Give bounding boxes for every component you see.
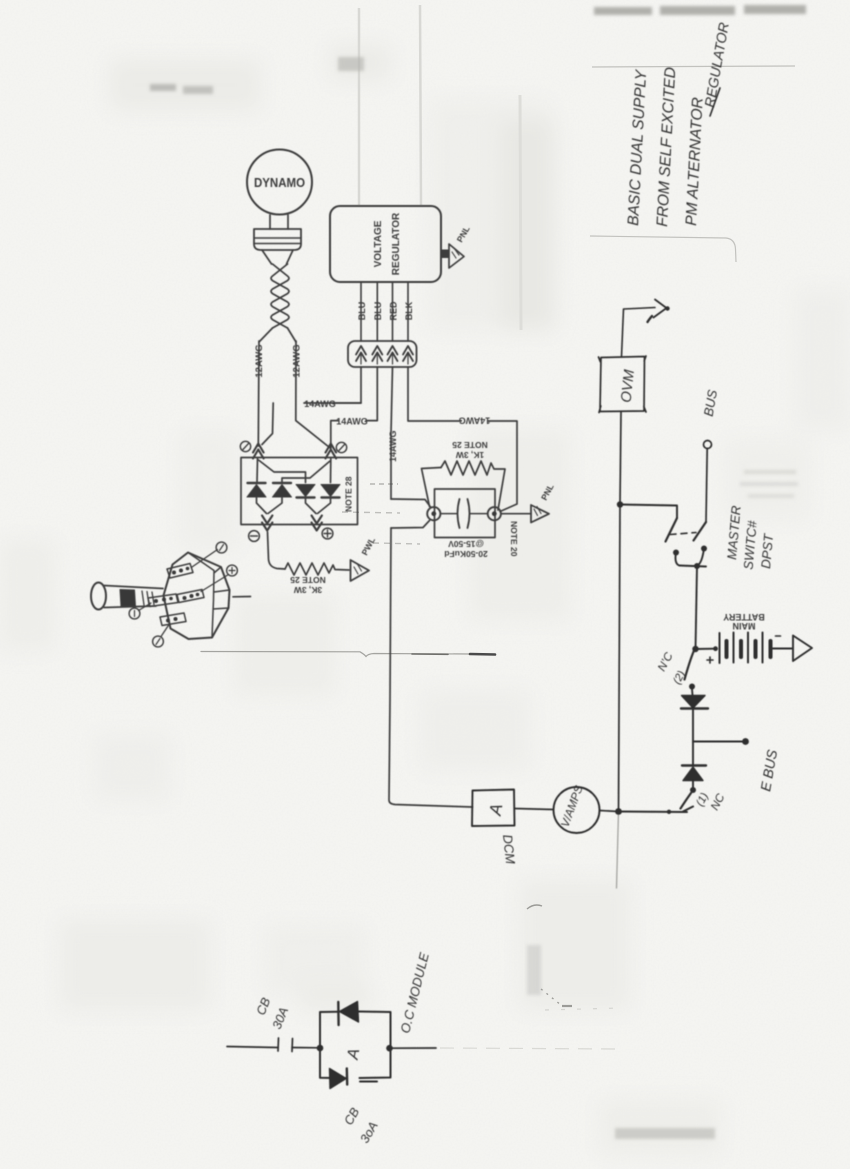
resistor R2 3K 3W: [285, 563, 349, 575]
NC2 contact: [689, 684, 695, 690]
plus terminal circle: [322, 528, 333, 539]
svg-text:12AWG: 12AWG: [254, 344, 265, 377]
dynamo shaft neck: [270, 215, 288, 229]
wire junction to master switch pole 1: [620, 505, 677, 519]
DC output chevron minus: [262, 516, 272, 531]
diode D2: [273, 482, 291, 484]
switch output bus: [680, 566, 707, 567]
title slash: [710, 88, 720, 116]
bridge internal wiring: [256, 459, 259, 483]
wire 12AWG left: [257, 341, 260, 446]
capacitor C1 box: [435, 489, 496, 538]
wire battery to ground: [772, 648, 792, 650]
svg-text:14AWG: 14AWG: [459, 416, 491, 426]
svg-text:BLU: BLU: [357, 302, 367, 321]
terminal tab middle: [148, 594, 178, 607]
battery BT1 MAIN BATTERY: [720, 633, 771, 664]
bridge bottom wiring: [257, 498, 283, 514]
terminal tab mid-right: [177, 590, 204, 603]
regulator output wires: [361, 282, 408, 341]
bridge rectifier box: [241, 458, 358, 525]
AC input arrow right: [326, 444, 337, 459]
crowbar diode bottom: [330, 1069, 347, 1089]
wire DCM to meter: [515, 809, 554, 810]
terminal tab top: [167, 564, 193, 579]
leader lines and pin label circles: [192, 550, 218, 568]
PNL arrow at regulator: [441, 250, 450, 259]
svg-text:BLK: BLK: [404, 301, 414, 320]
CB feeder wire left: [227, 1047, 277, 1048]
switch NC2 blade: [685, 651, 695, 680]
switch S1 blade: [666, 518, 678, 542]
circuit breaker CB 30A ticks: [278, 1038, 293, 1052]
svg-text:NOTE 25: NOTE 25: [452, 440, 488, 450]
node left of module: [317, 1045, 324, 1052]
PNL lamp triangle 2: [531, 505, 549, 523]
diode D1: [248, 482, 266, 484]
node battery junction: [692, 646, 698, 652]
wire loop from sense wire to cap terminal: [391, 499, 431, 507]
wire switch to battery node: [696, 566, 698, 649]
diode D6: [682, 696, 706, 709]
svg-text:MAIN: MAIN: [733, 621, 756, 631]
wire junction down to meter tap: [619, 505, 621, 812]
wire split to 12AWG pair: [259, 328, 296, 342]
switch NC1 blade: [681, 793, 692, 809]
faint ruled line top right: [592, 66, 795, 67]
gang link dashed: [670, 533, 696, 535]
capacitor terminal left: [427, 507, 440, 520]
wire E bus to diode D5: [692, 742, 694, 766]
smudged text top right: [150, 5, 806, 1139]
dynamo G1: [247, 150, 312, 215]
wire to E bus node: [692, 709, 694, 742]
AC input arrow left: [253, 444, 264, 459]
DC output chevron plus: [312, 516, 322, 531]
terminal tab bottom: [160, 613, 186, 626]
BUS feed terminal: [704, 441, 712, 449]
switch S1 contact: [673, 550, 679, 556]
svg-text:1K, 3W: 1K, 3W: [455, 450, 484, 460]
svg-text:DCM: DCM: [500, 834, 518, 865]
wire module output: [391, 1047, 437, 1049]
svg-text:14AWG: 14AWG: [336, 416, 368, 426]
stub wire right of alternator: [233, 596, 251, 598]
capacitor terminal right: [488, 507, 501, 520]
node junction at OVM wire: [617, 501, 623, 507]
svg-text:BATTERY: BATTERY: [723, 612, 765, 622]
svg-text:BLU: BLU: [373, 302, 383, 321]
wire bus terminal to switch S2: [706, 449, 707, 523]
crowbar diode top: [340, 1002, 359, 1023]
svg-text:DYNAMO: DYNAMO: [254, 176, 305, 191]
long RED sense wire to ammeter: [389, 367, 472, 807]
PWL lamp triangle: [351, 560, 370, 581]
phase label circle right: [336, 442, 346, 452]
OVM box: [599, 356, 647, 413]
faint dash: [562, 1005, 572, 1007]
E bus tap: [693, 741, 744, 743]
connector J1: [348, 341, 417, 367]
wire meter to junction: [600, 811, 619, 812]
node meter junction: [615, 808, 622, 815]
antenna arrow top right: [624, 308, 655, 310]
svg-text:NOTE 25: NOTE 25: [290, 575, 326, 585]
switch S2 blade: [694, 522, 707, 541]
node right of module: [386, 1045, 393, 1052]
wire OVM to junction: [620, 412, 621, 505]
twisted pair wire: [271, 264, 289, 328]
alternator shaft: [91, 583, 106, 610]
alternator pictorial: housing: [164, 553, 230, 640]
faint continuation of module wire: [440, 1048, 620, 1049]
capacitor plates: [441, 513, 488, 515]
minus terminal circle: [249, 531, 260, 542]
meter M1 V/AMPS: [554, 787, 600, 833]
switch S2 contact: [701, 546, 707, 552]
wire 14AWG no3: [408, 367, 517, 512]
diode D4: [321, 485, 340, 497]
wire 14AWG no1: [262, 367, 361, 445]
diode D3: [296, 485, 315, 497]
faint diagonal mark: [527, 905, 542, 909]
commutator block: [254, 229, 301, 250]
wire 14AWG no2: [331, 367, 378, 449]
faded wire continuing below: [617, 812, 619, 889]
resistor R1 1K 3W: [422, 468, 442, 507]
svg-text:20-50KuFd: 20-50KuFd: [444, 549, 487, 559]
svg-text:3K, 3W: 3K, 3W: [293, 585, 322, 595]
svg-text:14AWG: 14AWG: [304, 399, 336, 409]
svg-text:NOTE 28: NOTE 28: [344, 476, 354, 512]
svg-text:VOLTAGE: VOLTAGE: [373, 220, 384, 267]
wire cap to PNL: [501, 513, 531, 515]
battery minus sign: [776, 635, 781, 637]
connector pin chevrons: [356, 346, 413, 364]
battery plus sign: [707, 657, 713, 663]
wire arrow to OVM: [622, 309, 624, 357]
svg-text:14AWG: 14AWG: [388, 430, 398, 462]
OC module box: [320, 1012, 391, 1079]
svg-text:@15-50V: @15-50V: [448, 539, 484, 549]
wire minus to resistor: [268, 532, 286, 569]
voltage regulator U1: [330, 206, 441, 282]
svg-text:RED: RED: [388, 301, 398, 321]
diode D5: [682, 764, 706, 766]
phase label circle left: [240, 441, 250, 451]
NC1 contact: [690, 787, 696, 793]
taper to twisted pair: [262, 250, 293, 264]
ruled pencil line: [201, 652, 470, 657]
wire E bus feeder: [619, 811, 688, 814]
svg-text:REGULATOR: REGULATOR: [391, 212, 402, 275]
wire 12AWG right: [296, 341, 331, 449]
svg-text:12AWG: 12AWG: [292, 344, 303, 377]
ground symbol: [793, 636, 812, 662]
svg-text:DPST: DPST: [758, 532, 776, 569]
faint ruled line with corner: [590, 236, 736, 262]
DCM shunt box: [472, 790, 515, 827]
svg-text:NOTE 20: NOTE 20: [509, 521, 519, 557]
